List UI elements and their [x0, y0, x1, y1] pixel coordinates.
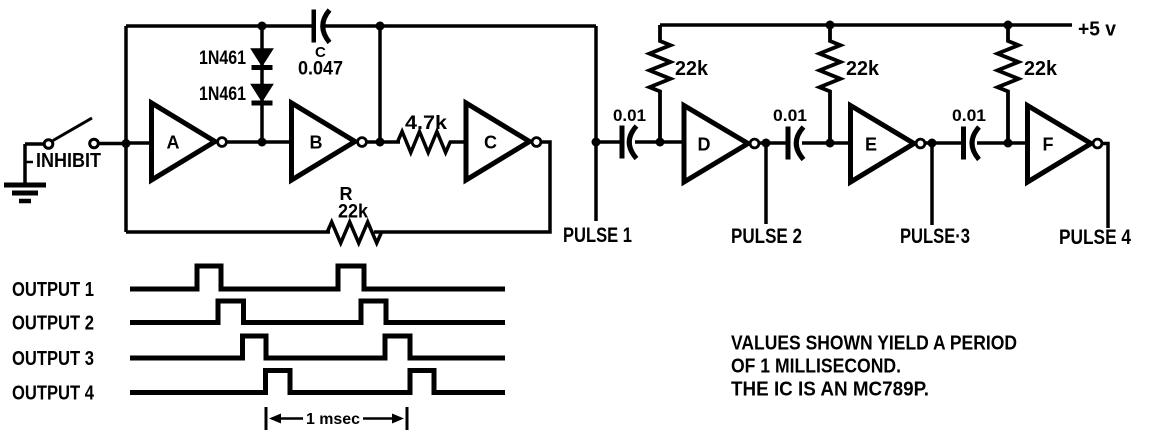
node PULSE1 junction	[592, 138, 601, 147]
op-amp U2D inverter D	[684, 106, 759, 183]
wire PULSE 2 drop	[764, 143, 768, 224]
svg-text:VALUES SHOWN YIELD A PERIOD: VALUES SHOWN YIELD A PERIOD	[731, 333, 1017, 355]
resistor 4.7k	[398, 132, 467, 153]
svg-text:OUTPUT 2: OUTPUT 2	[12, 313, 94, 335]
svg-text:1N461: 1N461	[199, 84, 246, 105]
wire PULSE1 to cap1	[596, 140, 620, 144]
waveform OUTPUT 1	[130, 266, 505, 289]
svg-text:PULSE 2: PULSE 2	[731, 225, 802, 248]
op-amp U2E inverter E	[851, 106, 925, 183]
op-amp U1A inverter A	[152, 103, 227, 180]
svg-text:0.01: 0.01	[773, 106, 807, 125]
svg-text:PULSE 4: PULSE 4	[1059, 226, 1131, 249]
resistor R3 22k pullup (E)	[820, 25, 841, 143]
wire A-out to B-in	[227, 140, 291, 144]
op-amp U2F inverter F	[1028, 106, 1102, 183]
svg-text:OUTPUT 1: OUTPUT 1	[12, 279, 94, 301]
svg-text:0.01: 0.01	[952, 106, 986, 125]
svg-text:B: B	[310, 133, 323, 153]
resistor R2 22k pullup (D)	[650, 25, 671, 142]
wire feedback bottom	[126, 230, 330, 234]
svg-text:THE IC IS AN MC789P.: THE IC IS AN MC789P.	[731, 379, 929, 401]
wire B-out up to top rail	[378, 26, 382, 142]
svg-text:PULSE·3: PULSE·3	[900, 225, 970, 248]
svg-text:1 msec: 1 msec	[306, 411, 360, 428]
resistor R4 22k pullup (F)	[998, 25, 1019, 143]
wire +5v rail	[660, 23, 1072, 27]
capacitor 0.01 (third)	[961, 127, 979, 160]
node resistor2 bottom junction	[826, 139, 835, 148]
wire left vertical	[124, 26, 128, 232]
svg-text:INHIBIT: INHIBIT	[36, 150, 101, 172]
capacitor 0.01 (second)	[786, 127, 804, 160]
wire PULSE 3 drop	[930, 143, 934, 225]
dimension 1 msec	[266, 407, 407, 430]
ground	[4, 144, 46, 201]
svg-text:F: F	[1043, 135, 1054, 155]
svg-text:A: A	[167, 133, 180, 153]
svg-text:E: E	[865, 135, 877, 155]
node PULSE2 junction	[762, 139, 771, 148]
wire cap1 to D	[635, 140, 684, 144]
node resistor3 bottom junction	[1004, 139, 1013, 148]
wire E-out	[925, 141, 962, 145]
svg-text:0.047: 0.047	[298, 59, 343, 80]
wire top rail left	[126, 24, 596, 28]
svg-text:OUTPUT 4: OUTPUT 4	[12, 383, 95, 405]
capacitor C 0.047	[312, 10, 330, 43]
op-amp U1C inverter C	[466, 103, 541, 180]
wire PULSE 4 drop	[1102, 144, 1108, 229]
svg-text:OUTPUT 3: OUTPUT 3	[12, 348, 94, 370]
wire diode chain vertical	[260, 26, 264, 142]
svg-text:PULSE 1: PULSE 1	[563, 224, 632, 247]
waveform OUTPUT 2	[130, 301, 505, 323]
diode D1 1N461	[252, 49, 273, 68]
wire cap3 to F	[977, 141, 1028, 145]
svg-text:C: C	[484, 133, 497, 153]
wire D-out	[759, 141, 786, 145]
node rail junction E	[826, 21, 835, 30]
wire cap2 to E	[802, 141, 851, 145]
node rail junction F	[1004, 21, 1013, 30]
svg-text:D: D	[698, 135, 711, 155]
node diode bottom junction	[258, 138, 267, 147]
wire to inverter A	[126, 141, 151, 145]
resistor R 22k feedback	[327, 222, 381, 243]
waveform OUTPUT 3	[130, 336, 505, 358]
svg-text:22k: 22k	[675, 58, 709, 80]
waveform OUTPUT 4	[130, 371, 505, 393]
svg-text:4.7k: 4.7k	[405, 113, 447, 134]
node top rail B junction	[376, 22, 385, 31]
svg-text:22k: 22k	[338, 202, 368, 223]
node diode top junction	[258, 22, 267, 31]
wire C-out down to feedback	[374, 142, 550, 232]
svg-text:+5 v: +5 v	[1078, 19, 1117, 41]
svg-text:22k: 22k	[1024, 58, 1058, 80]
svg-text:0.01: 0.01	[613, 106, 646, 125]
svg-text:22k: 22k	[846, 58, 880, 80]
diode D2 1N461	[252, 85, 273, 104]
svg-text:1N461: 1N461	[199, 48, 246, 69]
switch S1 INHIBIT	[25, 118, 126, 162]
wire PULSE 1 drop	[594, 26, 598, 221]
svg-text:OF 1 MILLISECOND.: OF 1 MILLISECOND.	[731, 356, 901, 378]
node PULSE3 junction	[928, 139, 937, 148]
node resistor1 bottom junction	[656, 138, 665, 147]
capacitor 0.01 (first)	[620, 126, 637, 159]
op-amp U1B inverter B	[292, 103, 367, 180]
node B-out junction	[376, 138, 385, 147]
wire B-out	[367, 140, 400, 144]
node A-input junction	[122, 139, 131, 148]
